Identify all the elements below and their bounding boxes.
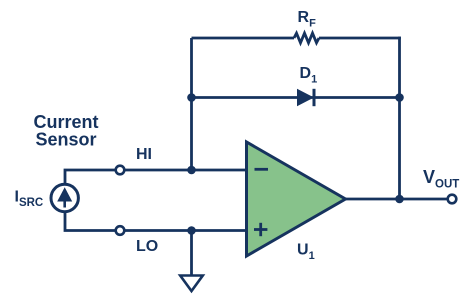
svg-text:HI: HI bbox=[136, 146, 152, 163]
junction: LO / ground bbox=[187, 226, 196, 235]
junction: D1 right bbox=[395, 93, 404, 102]
wire: HI rail from current source to op-amp minus input bbox=[65, 170, 247, 184]
svg-text:Sensor: Sensor bbox=[35, 130, 96, 150]
wire: D1 rail bbox=[192, 96, 400, 99]
node VOUT terminal bbox=[448, 195, 457, 204]
svg-text:LO: LO bbox=[136, 238, 158, 255]
op-amp U1 bbox=[247, 142, 346, 256]
current source ISRC bbox=[51, 184, 78, 211]
wire: op-amp output to VOUT terminal bbox=[345, 198, 447, 201]
ground bbox=[180, 276, 203, 292]
resistor RF bbox=[294, 33, 319, 43]
node LO terminal bbox=[116, 226, 125, 235]
node HI terminal bbox=[116, 166, 125, 175]
wire: ground stem bbox=[190, 231, 193, 276]
wire: RF top rail bbox=[192, 37, 295, 40]
junction: output / feedback bbox=[395, 195, 404, 204]
junction: D1 left bbox=[187, 93, 196, 102]
junction: HI / feedback riser bbox=[187, 166, 196, 175]
wire: LO rail from current source to op-amp plus input bbox=[65, 213, 247, 231]
diode D1 bbox=[297, 89, 314, 106]
wire: left feedback riser bbox=[190, 38, 193, 170]
wire: right feedback drop to output bbox=[398, 37, 401, 199]
